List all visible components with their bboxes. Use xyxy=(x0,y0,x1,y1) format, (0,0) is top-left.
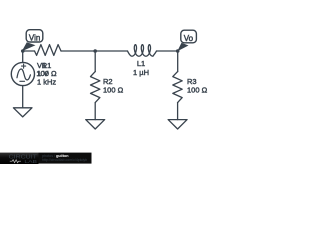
node A junction xyxy=(21,49,25,53)
svg-text:1 µH: 1 µH xyxy=(133,68,149,77)
label L1 xyxy=(133,59,149,77)
svg-text:100 Ω: 100 Ω xyxy=(187,85,208,94)
svg-text:1 kHz: 1 kHz xyxy=(37,77,56,86)
label R3 xyxy=(187,77,208,94)
svg-text:Vo: Vo xyxy=(184,34,194,43)
flag Vo xyxy=(177,30,196,51)
wire xyxy=(22,51,24,63)
svg-text:Vin: Vin xyxy=(29,34,40,43)
svg-text:100 Ω: 100 Ω xyxy=(103,85,124,94)
wire xyxy=(177,51,179,72)
wire xyxy=(157,50,178,52)
wire xyxy=(94,103,96,120)
node B junction xyxy=(93,49,97,53)
svg-text:http://circuitlab.com/c/4pkdyb: http://circuitlab.com/c/4pkdyb xyxy=(42,158,87,162)
label R1 xyxy=(36,61,57,78)
voltage source V1 xyxy=(11,62,34,85)
svg-text:100 Ω: 100 Ω xyxy=(36,69,57,78)
wire xyxy=(61,50,128,52)
svg-text:LAB: LAB xyxy=(24,159,37,164)
ground xyxy=(86,120,105,129)
watermark credit xyxy=(39,153,92,164)
label V1 xyxy=(37,61,56,86)
wire xyxy=(177,103,179,120)
ground xyxy=(13,108,32,117)
label R2 xyxy=(103,77,124,94)
resistor R1 xyxy=(35,45,62,56)
ground xyxy=(168,120,187,129)
wire xyxy=(94,51,96,72)
node C junction xyxy=(176,49,180,53)
resistor R2 xyxy=(91,72,100,103)
wire xyxy=(23,50,35,52)
resistor R3 xyxy=(173,72,182,103)
wire xyxy=(22,86,24,108)
svg-text:L1: L1 xyxy=(137,59,145,68)
flag Vin xyxy=(22,30,43,52)
inductor L1 xyxy=(128,45,157,57)
